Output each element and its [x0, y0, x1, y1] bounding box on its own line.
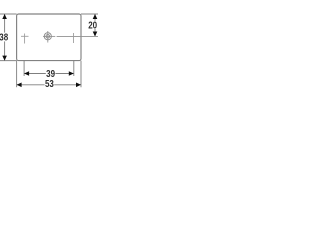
arrow down 38 — [2, 56, 7, 61]
arrow up 20 — [93, 14, 98, 19]
arrow up 38 — [2, 14, 7, 19]
basin outline rectangle — [17, 14, 81, 61]
arrow right 53 — [76, 83, 81, 88]
arrow left 39 — [24, 71, 29, 76]
extension line below rect at x=73.8 for 39-dim — [73, 61, 75, 76]
top extension line (left, to 38-dim) — [0, 13, 17, 15]
arrow right 39 — [69, 71, 74, 76]
extension line below rect at x=81 for 53-dim — [80, 61, 82, 88]
top extension line (right, to 20-dim) — [81, 13, 98, 15]
right cross mark vertical — [73, 33, 75, 43]
arrow down 20 — [93, 32, 98, 37]
centerline through tap hole to 20-dim — [43, 35, 55, 37]
extension line below rect at x=16.6 for 53-dim — [16, 61, 18, 88]
dimension line 39 — [24, 73, 46, 75]
arrow left 53 — [17, 83, 22, 88]
tap hole vertical crosshair — [47, 31, 49, 43]
svg-text:38: 38 — [0, 32, 8, 43]
svg-text:20: 20 — [88, 20, 97, 31]
extension line below rect at x=24.1 for 39-dim — [23, 61, 25, 76]
dimension line 53 — [17, 84, 45, 86]
dimension line 20 (right vertical) — [94, 14, 96, 21]
svg-text:53: 53 — [45, 78, 54, 89]
bottom extension line (left, to 38-dim) — [0, 60, 17, 62]
left cross mark vertical — [24, 34, 26, 44]
dimension line 38 (left vertical) — [4, 14, 6, 33]
left cross mark horizontal — [21, 35, 29, 37]
tap hole circle outer — [44, 33, 51, 40]
tap hole circle inner — [46, 35, 50, 39]
